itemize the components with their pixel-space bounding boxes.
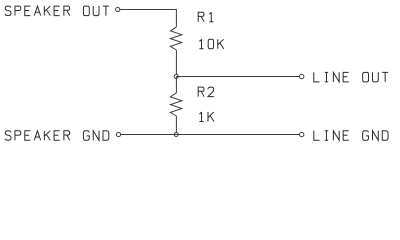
wire speaker out to R1 top	[120, 10, 177, 27]
net label SPEAKER OUT	[5, 6, 109, 16]
net label LINE OUT	[314, 72, 388, 82]
wire R1 bottom to node	[175, 50, 177, 77]
terminal SPEAKER OUT	[116, 7, 120, 11]
value label 1K	[199, 112, 214, 122]
terminal SPEAKER GND	[116, 132, 120, 136]
resistor R1	[170, 27, 181, 50]
wire node to line out	[176, 76, 299, 78]
wire node to R2 top	[175, 77, 177, 93]
node junction gnd	[174, 133, 178, 137]
net label LINE GND	[314, 131, 388, 141]
node junction R1/R2/line out	[174, 75, 178, 79]
reference designator R2	[198, 87, 214, 97]
value label 10K	[199, 39, 223, 49]
reference designator R1	[198, 12, 213, 22]
terminal LINE OUT	[300, 74, 304, 78]
resistor R2	[170, 93, 181, 116]
wire R2 bottom to gnd node	[175, 116, 177, 135]
wire speaker gnd to line gnd	[121, 134, 300, 136]
net label SPEAKER GND	[5, 131, 109, 141]
terminal LINE GND	[300, 132, 304, 136]
